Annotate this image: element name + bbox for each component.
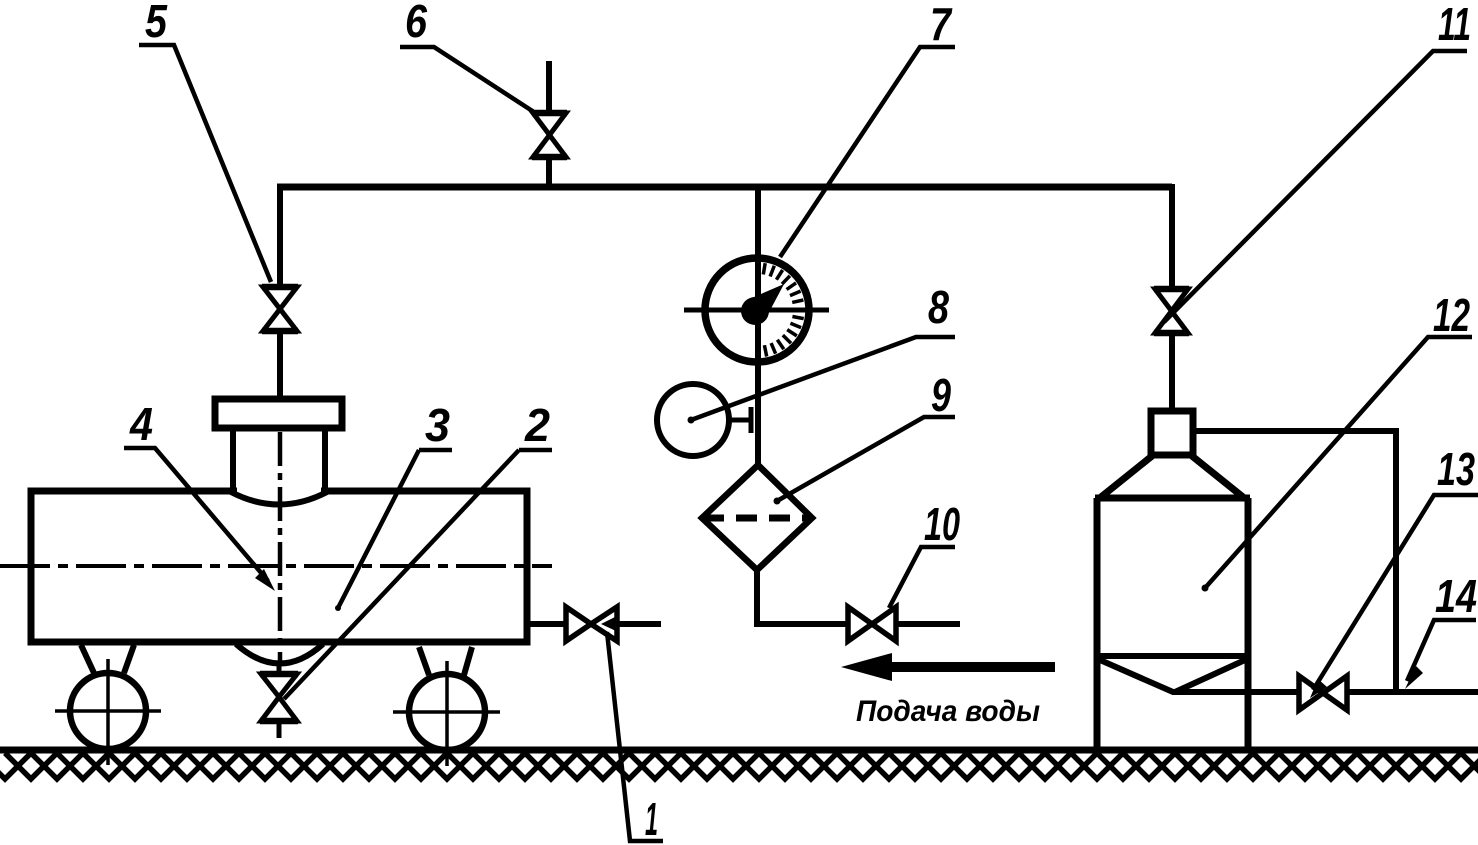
ground line — [0, 747, 1478, 754]
dome flange (hatch cover) — [215, 399, 342, 428]
wire filter to valve 10 — [754, 567, 849, 624]
wire main top pipe — [277, 184, 1172, 191]
wire valve 1 outlet — [617, 621, 661, 627]
svg-text:8: 8 — [928, 281, 949, 333]
gauge needle — [741, 297, 769, 325]
valve V1 — [566, 607, 617, 641]
left wheel centermark — [55, 659, 161, 765]
valve V10 — [848, 607, 896, 641]
svg-text:11: 11 — [1438, 0, 1471, 50]
wire left riser to valve 5 — [277, 184, 283, 285]
tank car body (3) — [31, 491, 527, 642]
svg-text:9: 9 — [931, 369, 951, 421]
svg-text:1: 1 — [645, 793, 658, 845]
label 6 — [400, 0, 537, 114]
label 1 — [601, 617, 663, 845]
right wheel centermark — [393, 661, 500, 766]
label 8 — [691, 281, 955, 420]
tank 12 inner line — [1097, 653, 1248, 659]
label 4 — [124, 398, 275, 591]
label 11 — [1164, 0, 1471, 322]
svg-text:10: 10 — [924, 498, 960, 550]
label 3 — [338, 399, 452, 608]
right wheel axle support — [419, 647, 472, 675]
ground hatch — [0, 753, 1478, 779]
gauge 8 tee stub — [729, 407, 751, 433]
label 12 — [1205, 289, 1472, 588]
leader dots — [688, 417, 695, 424]
wire funnel outlet to valve 13 — [1172, 689, 1299, 695]
dome saddle arc — [231, 492, 327, 505]
svg-text:14: 14 — [1435, 570, 1477, 622]
filter dashed centerline — [703, 515, 811, 522]
svg-text:3: 3 — [425, 399, 450, 451]
tank 12 body — [1095, 498, 1250, 750]
label 10 — [889, 498, 960, 608]
label 5 — [139, 0, 271, 282]
gap in tank top under dome — [237, 486, 321, 496]
wire valve 13 outlet — [1347, 689, 1478, 695]
label 13 — [1313, 443, 1478, 690]
wire right riser — [1169, 184, 1175, 288]
wire valve6 to main pipe — [546, 157, 552, 187]
dome vertical centerline — [278, 432, 283, 662]
gauge 8 circle — [657, 384, 729, 456]
gauge riser pipe — [755, 184, 761, 466]
valve V2 stub top — [277, 662, 282, 674]
valve V5 — [262, 287, 298, 331]
tank horizontal centerline — [0, 564, 552, 568]
right wheel — [409, 674, 485, 750]
valve V6 — [532, 113, 567, 157]
left wheel axle support — [81, 645, 134, 673]
valve V11 — [1154, 289, 1189, 333]
wire tank to valve 1 — [527, 621, 566, 627]
svg-text:12: 12 — [1433, 289, 1470, 341]
svg-text:Подача воды: Подача воды — [856, 695, 1040, 728]
leader 13 arrowhead — [1310, 679, 1327, 698]
left wheel — [70, 673, 146, 749]
tank 12 funnel — [1100, 660, 1245, 692]
dome neck — [233, 426, 325, 492]
gauge ticks — [763, 263, 804, 356]
filter F9 diamond — [702, 465, 812, 570]
svg-text:7: 7 — [930, 0, 953, 50]
pressure gauge U7 — [705, 258, 809, 362]
svg-text:13: 13 — [1437, 443, 1475, 495]
wire stub above valve 6 — [546, 61, 552, 113]
wire valve5 to dome — [277, 331, 283, 401]
svg-text:6: 6 — [405, 0, 427, 47]
label 2 — [284, 399, 552, 699]
label 14 — [1405, 570, 1477, 689]
tank 12 cone shoulder — [1101, 456, 1243, 497]
wire bypass down — [1393, 428, 1399, 690]
valve V2 stub bottom — [277, 721, 282, 738]
valve V13 — [1299, 676, 1347, 710]
svg-text:4: 4 — [129, 398, 153, 450]
valve V2 — [260, 674, 298, 721]
label 9 — [777, 369, 955, 501]
gauge horizontal centerline — [684, 308, 829, 313]
svg-text:2: 2 — [524, 399, 550, 451]
water supply arrow — [841, 653, 1055, 681]
wire bypass top — [1193, 428, 1396, 434]
tank 12 nozzle — [1151, 411, 1193, 455]
label 7 — [780, 0, 955, 257]
wire valve 10 outlet — [896, 621, 960, 627]
tank bottom sump arc — [236, 644, 323, 664]
svg-text:5: 5 — [145, 0, 168, 47]
wire valve 11 to tank 12 — [1169, 333, 1175, 412]
